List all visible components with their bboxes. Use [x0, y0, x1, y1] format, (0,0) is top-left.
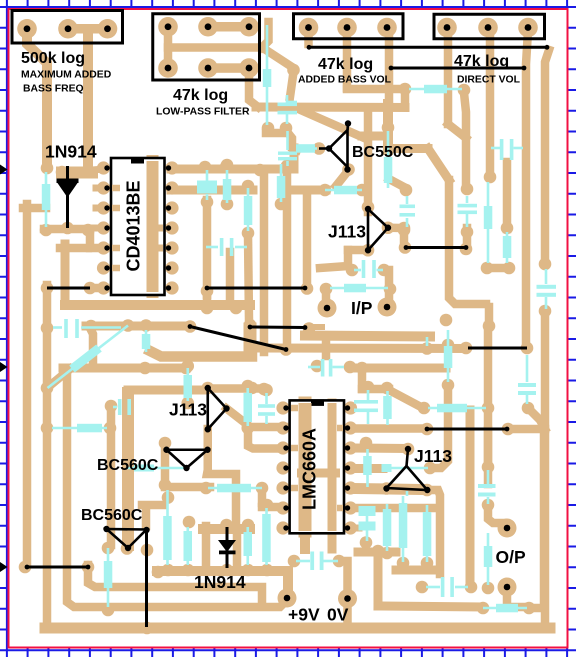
svg-text:DIRECT VOL: DIRECT VOL: [457, 75, 521, 86]
svg-text:47k log: 47k log: [173, 87, 228, 104]
svg-text:MAXIMUM ADDED: MAXIMUM ADDED: [21, 70, 112, 81]
svg-text:500k log: 500k log: [21, 50, 85, 67]
svg-text:BC560C: BC560C: [97, 457, 159, 474]
svg-text:BC550C: BC550C: [352, 144, 414, 161]
svg-text:LOW-PASS FILTER: LOW-PASS FILTER: [156, 107, 250, 118]
svg-text:+9V: +9V: [288, 605, 320, 625]
svg-text:1N914: 1N914: [45, 142, 97, 162]
svg-text:1N914: 1N914: [194, 572, 246, 592]
svg-text:CD4013BE: CD4013BE: [124, 180, 144, 271]
svg-text:J113: J113: [328, 222, 366, 242]
svg-text:J113: J113: [169, 400, 207, 420]
svg-text:BASS FREQ: BASS FREQ: [23, 84, 84, 95]
svg-text:BC560C: BC560C: [81, 507, 143, 524]
svg-text:I/P: I/P: [351, 298, 373, 318]
svg-text:47k log: 47k log: [318, 56, 373, 73]
svg-text:LMC660A: LMC660A: [300, 428, 320, 510]
svg-text:ADDED BASS VOL: ADDED BASS VOL: [298, 75, 392, 86]
svg-text:0V: 0V: [327, 605, 349, 625]
svg-text:J113: J113: [414, 446, 452, 466]
svg-text:47k log: 47k log: [454, 53, 509, 70]
svg-text:O/P: O/P: [496, 547, 526, 567]
